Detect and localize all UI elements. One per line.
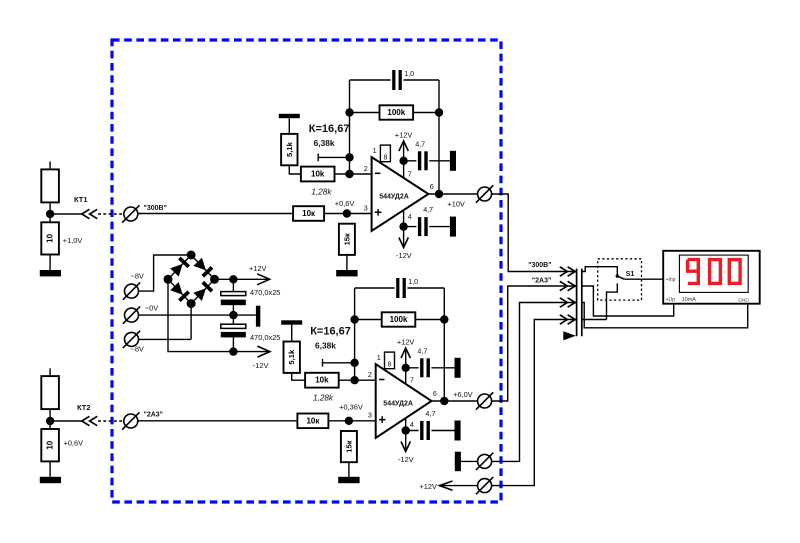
arrowhead -12V rail <box>257 346 270 357</box>
label ~0V <box>145 304 158 313</box>
connector row4 <box>476 477 493 494</box>
arrowhead +12V rail <box>257 274 270 285</box>
wire 100k (U1 top channel) <box>350 112 440 114</box>
svg-text:100k: 100k <box>387 108 405 117</box>
pin 2 label (U1 top channel) <box>364 164 368 173</box>
node pin2 (U2 bottom channel) <box>350 376 358 384</box>
svg-text:КТ1: КТ1 <box>74 195 88 204</box>
svg-text:544УД2А: 544УД2А <box>383 401 413 408</box>
connector bus lines <box>577 269 582 337</box>
svg-text:К=16,67: К=16,67 <box>309 123 350 135</box>
node filter + rail <box>229 275 237 283</box>
ground (KT1) <box>40 270 61 276</box>
arrowhead -12V (U1 top channel) <box>399 238 408 248</box>
svg-text:+0,6V: +0,6V <box>335 199 355 208</box>
svg-text:~0V: ~0V <box>145 304 158 313</box>
wire output (U2 bottom channel) <box>432 400 478 402</box>
svg-text:470,0x25: 470,0x25 <box>250 333 280 342</box>
connector "300В" input <box>122 205 139 222</box>
wire ~8V to bridge bottom <box>139 338 192 340</box>
svg-text:+12V: +12V <box>397 337 415 346</box>
connector output (U2 bottom channel) <box>476 392 493 409</box>
svg-text:8: 8 <box>388 361 392 368</box>
terminal bar above 5,1k (U1 top channel) <box>279 114 300 118</box>
svg-text:+1,0V: +1,0V <box>63 236 83 245</box>
op-amp 544УД2А (U1 top channel) <box>372 157 429 231</box>
label +1,0V <box>63 236 83 245</box>
label +12V feed <box>419 482 437 491</box>
label pin3 voltage (U2 bottom channel) <box>339 402 363 411</box>
wire 10k to pin2 (U1 top channel) <box>335 173 372 175</box>
arrow into bus row4 <box>560 315 575 324</box>
stub 6,38k (U2 bottom channel) <box>323 359 355 367</box>
svg-text:"2А3": "2А3" <box>144 412 163 419</box>
arrow into bus row3 <box>560 298 575 307</box>
wire feedback left vertical (U1 top channel) <box>349 80 351 174</box>
svg-text:+12V: +12V <box>419 482 437 491</box>
node feedback left (U2 bottom channel) <box>350 315 358 323</box>
label 4,7 top (U2 bottom channel) <box>417 347 427 356</box>
resistor 15к (U1 top channel) <box>339 224 355 255</box>
wire KT2 to arrow <box>50 420 82 422</box>
wire +12V rail <box>215 278 269 280</box>
resistor 100k (U2 bottom channel) <box>382 312 416 326</box>
wire pin7 (U1 top channel) <box>403 142 405 178</box>
terminal bar row3 <box>455 452 461 472</box>
connector row3 <box>476 453 493 470</box>
wire input to pin3 (U2 bottom channel) <box>138 420 376 422</box>
wire bridge left to -12V rail <box>168 279 233 351</box>
svg-text:К=16,67: К=16,67 <box>310 326 351 338</box>
wire 15к to ground (U2 bottom channel) <box>348 462 350 477</box>
pin 4 label (U2 bottom channel) <box>410 420 414 429</box>
node filter mid (0V) <box>229 311 237 319</box>
wire 2А3 signal to bus <box>492 286 577 401</box>
plus sign (U2 bottom channel) <box>379 416 386 423</box>
wire pin4 (U1 top channel) <box>403 210 405 246</box>
node feedback right (U1 top channel) <box>435 108 443 116</box>
minus sign (U1 top channel) <box>375 172 380 174</box>
diode VD2 (top-right) <box>193 258 212 277</box>
wire feedback right vertical (U2 bottom channel) <box>443 288 445 401</box>
capacitor 1,0 (U2 bottom channel) <box>396 278 406 298</box>
terminal bar 4,7 top (U1 top channel) <box>450 151 456 171</box>
label 2А3 at bus <box>532 278 551 285</box>
svg-text:6: 6 <box>433 389 437 398</box>
label +12V rail <box>249 264 267 273</box>
node KT2 <box>46 417 54 425</box>
digit 0 (right) <box>729 260 740 284</box>
resistor 5,1k (U1 top channel) <box>281 134 297 165</box>
resistor 10 (KT2 lower) <box>41 429 59 461</box>
svg-text:-12V: -12V <box>253 361 269 370</box>
svg-text:-12V: -12V <box>398 455 414 464</box>
resistor 10к input (U2 bottom channel) <box>297 414 328 429</box>
pin 7 label (U1 top channel) <box>408 169 412 178</box>
node feedback right (U2 bottom channel) <box>440 315 448 323</box>
svg-text:6: 6 <box>430 182 434 191</box>
pin 1 label (U2 bottom channel) <box>377 353 381 362</box>
label pin3 voltage (U1 top channel) <box>335 199 355 208</box>
resistor 10k (U1 top channel) <box>301 167 335 182</box>
node pin7 (U2 bottom channel) <box>402 364 410 372</box>
connector "2А3" input <box>122 412 139 429</box>
svg-text:10mA: 10mA <box>682 297 696 303</box>
svg-text:5,1k: 5,1k <box>287 349 296 365</box>
label KT2 <box>77 403 91 412</box>
svg-text:10k: 10k <box>311 170 325 179</box>
svg-text:+Up: +Up <box>666 297 676 303</box>
terminal bar 4,7 bottom (U2 bottom channel) <box>455 421 461 441</box>
resistor (KT2 upper, unlabeled) <box>41 368 59 409</box>
offset null box pin 8 (U2 bottom channel) <box>385 352 395 369</box>
resistor 10к input (U1 top channel) <box>293 206 324 221</box>
label +12V (U2 bottom channel) <box>397 337 415 346</box>
svg-text:4,7: 4,7 <box>415 140 425 149</box>
dashed wire into module <box>98 420 124 422</box>
wire pin4 (U2 bottom channel) <box>405 418 407 450</box>
svg-text:+0,36V: +0,36V <box>339 402 363 411</box>
svg-text:1: 1 <box>377 353 381 362</box>
label 10mA <box>682 297 696 303</box>
switch enclosure (dashed) <box>598 259 642 300</box>
svg-text:1,0: 1,0 <box>404 69 414 78</box>
svg-text:10: 10 <box>46 233 55 242</box>
digit 0 (middle) <box>710 260 721 284</box>
label K=16,67 (U2 bottom channel) <box>310 326 351 338</box>
node output (U1 top channel) <box>435 190 443 198</box>
wire feedback left vertical (U2 bottom channel) <box>354 288 356 380</box>
svg-text:1,0: 1,0 <box>408 277 418 286</box>
label -12V (U1 top channel) <box>396 251 412 260</box>
node output (U2 bottom channel) <box>440 397 448 405</box>
wire <box>49 255 51 271</box>
connector output (U1 top channel) <box>476 185 493 202</box>
label 2А3 input <box>144 412 163 419</box>
connector ~8V (bottom) <box>123 331 140 348</box>
label K=16,67 (U1 top channel) <box>309 123 350 135</box>
device boundary (blue dashed frame) <box>112 40 501 502</box>
connector ~8V (top) <box>123 282 140 299</box>
terminal bar 4,7 top (U2 bottom channel) <box>455 358 461 378</box>
wire bus row2 to display +Up <box>582 286 674 316</box>
wire +12V feed <box>440 485 478 487</box>
wire 10k to pin2 (U2 bottom channel) <box>339 379 376 381</box>
label +12V (U1 top channel) <box>395 130 413 139</box>
node bridge left <box>164 275 173 284</box>
wire row3 to bus <box>492 303 577 462</box>
wire -12V rail <box>233 351 268 353</box>
wire 5,1k to 10k (U2 bottom channel) <box>292 373 305 380</box>
svg-text:4: 4 <box>410 420 414 429</box>
arrow KT2 (double chevron left) <box>82 416 97 425</box>
resistor 10k (U2 bottom channel) <box>305 373 339 388</box>
arrowhead -12V (U2 bottom channel) <box>401 442 410 452</box>
common terminal bar (0V) <box>256 306 260 327</box>
wire feedback top (U2 bottom channel) <box>355 287 445 289</box>
arrowhead +12V feed (left) <box>440 481 453 490</box>
label 6,38k (U2 bottom channel) <box>315 341 336 351</box>
svg-text:4,7: 4,7 <box>423 205 433 214</box>
wire bridge bottom to ~8V <box>190 304 192 340</box>
switch throw2 contact <box>607 283 618 319</box>
wire bar to 5,1k (U1 top channel) <box>288 118 290 134</box>
svg-text:7: 7 <box>410 375 414 384</box>
label 4,7 top (U1 top channel) <box>415 140 425 149</box>
svg-text:+Inp: +Inp <box>666 277 676 283</box>
label 1,0 (U2 bottom channel) <box>408 277 418 286</box>
capacitor 470,0x25 (upper) <box>221 292 246 306</box>
wire feedback right vertical (U1 top channel) <box>438 80 440 194</box>
label ~8V top <box>131 272 144 281</box>
svg-text:"2А3": "2А3" <box>532 278 551 285</box>
svg-text:КТ2: КТ2 <box>77 403 91 412</box>
wire cap 4,7 bottom (U1 top channel) <box>404 226 450 228</box>
dashed wire into module <box>98 213 124 215</box>
wire 5,1k to 10k (U1 top channel) <box>289 165 301 174</box>
wire <box>49 461 51 476</box>
arrow into bus row1 <box>560 267 575 276</box>
wire bus row3 to display GND <box>582 303 748 328</box>
wire cap 4,7 top (U2 bottom channel) <box>406 367 455 369</box>
wire KT1 to arrow <box>50 213 82 215</box>
terminal bar 4,7 bottom (U1 top channel) <box>450 217 456 237</box>
capacitor 470,0x25 (lower) <box>221 324 246 337</box>
label 4,7 bottom (U1 top channel) <box>423 205 433 214</box>
wire 15к to ground (U1 top channel) <box>346 255 348 270</box>
wire cap 4,7 top (U1 top channel) <box>404 160 450 162</box>
svg-text:470,0x25: 470,0x25 <box>250 288 280 297</box>
node 6,38k (U1 top channel) <box>345 153 353 161</box>
wire input to pin3 (U1 top channel) <box>138 213 372 215</box>
svg-text:4: 4 <box>408 212 412 221</box>
svg-text:4,7: 4,7 <box>417 347 427 356</box>
svg-text:2: 2 <box>364 164 368 173</box>
diode VD3 (left-bottom) <box>170 282 189 301</box>
diode VD4 (bottom-right) <box>193 282 212 301</box>
svg-text:+12V: +12V <box>249 264 267 273</box>
capacitor 4,7 top (U2 bottom channel) <box>420 358 430 377</box>
resistor (KT1 upper, unlabeled) <box>41 162 59 203</box>
label 4,7 bottom (U2 bottom channel) <box>425 409 435 418</box>
label output voltage (U1 top channel) <box>447 199 465 208</box>
node bridge right <box>210 275 219 284</box>
wire bus row1 to switch throw1 <box>582 267 618 276</box>
svg-text:"300В": "300В" <box>144 205 167 212</box>
svg-text:1,28k: 1,28k <box>311 187 332 196</box>
wire cap stack <box>232 279 234 351</box>
svg-text:6,38k: 6,38k <box>315 341 336 351</box>
pin 6 label (U1 top channel) <box>430 182 434 191</box>
pin 3 label (U2 bottom channel) <box>368 411 372 420</box>
svg-text:10к: 10к <box>306 416 320 425</box>
wire <box>49 202 51 222</box>
capacitor 4,7 bottom (U2 bottom channel) <box>420 421 430 440</box>
node pin3 (U1 top channel) <box>343 209 351 217</box>
panel meter window <box>679 255 748 292</box>
svg-text:544УД2А: 544УД2А <box>379 194 409 201</box>
label -12V rail <box>253 361 269 370</box>
label S1 <box>626 269 635 278</box>
pin 7 label (U2 bottom channel) <box>410 375 414 384</box>
svg-text:"300В": "300В" <box>528 262 551 269</box>
op-amp 544УД2А (U2 bottom channel) <box>376 364 432 438</box>
svg-text:1: 1 <box>373 146 377 155</box>
node pin2 (U1 top channel) <box>345 170 353 178</box>
label +Up <box>666 297 676 303</box>
pin 2 label (U2 bottom channel) <box>368 370 372 379</box>
svg-text:GND: GND <box>738 297 749 303</box>
wire ~8V to bridge top <box>139 255 192 291</box>
plus sign (U1 top channel) <box>375 209 382 216</box>
node 6,38k (U2 bottom channel) <box>350 359 358 367</box>
label ~8V bottom <box>131 345 144 354</box>
svg-text:8: 8 <box>383 154 387 161</box>
panel meter body <box>663 251 760 304</box>
connector ~0V <box>123 306 140 323</box>
wire <box>49 409 51 429</box>
svg-text:4,7: 4,7 <box>425 409 435 418</box>
node bridge bottom <box>187 299 196 308</box>
resistor 15к (U2 bottom channel) <box>341 431 357 462</box>
capacitor 4,7 bottom (U1 top channel) <box>418 217 428 236</box>
svg-text:+0,6V: +0,6V <box>64 439 84 448</box>
wire switch common to display <box>624 278 663 280</box>
label 470,0x25 lower <box>250 333 280 342</box>
resistor 5,1k (U2 bottom channel) <box>284 342 300 373</box>
diode VD1 (left-top) <box>170 258 189 277</box>
label 544УД2А (U1 top channel) <box>379 194 409 201</box>
label 1,28k (U1 top channel) <box>311 187 332 196</box>
arrow into bus row2 <box>560 281 575 290</box>
wire 100k (U2 bottom channel) <box>355 319 445 321</box>
wire bar to 5,1k (U2 bottom channel) <box>291 325 293 342</box>
label -12V (U2 bottom channel) <box>398 455 414 464</box>
svg-text:3: 3 <box>364 203 368 212</box>
svg-text:15к: 15к <box>344 440 353 452</box>
node pin3 (U2 bottom channel) <box>345 417 353 425</box>
minus sign (U2 bottom channel) <box>379 379 384 381</box>
node bridge top <box>187 251 196 260</box>
wire 300В signal to bus <box>492 194 577 272</box>
svg-text:S1: S1 <box>626 269 635 278</box>
digit 9 <box>688 260 699 284</box>
svg-text:+10V: +10V <box>447 199 465 208</box>
node pin4 (U1 top channel) <box>399 222 407 230</box>
svg-text:10k: 10k <box>315 376 329 385</box>
node pin7 (U1 top channel) <box>399 157 407 165</box>
wire output (U1 top channel) <box>428 193 477 195</box>
label 1,28k (U2 bottom channel) <box>313 394 334 403</box>
pin 3 label (U1 top channel) <box>364 203 368 212</box>
arrowhead +12V (U2 bottom channel) <box>401 348 410 358</box>
label GND <box>738 297 749 303</box>
svg-text:~8V: ~8V <box>131 272 144 281</box>
svg-text:2: 2 <box>368 370 372 379</box>
ground (U2 bottom channel) <box>338 477 359 483</box>
label 6,38k (U1 top channel) <box>314 138 335 148</box>
node KT1 <box>46 210 54 218</box>
svg-text:-12V: -12V <box>396 251 412 260</box>
label +Inp <box>666 277 676 283</box>
svg-text:10к: 10к <box>302 209 316 218</box>
svg-text:10: 10 <box>46 440 55 449</box>
capacitor 1,0 (U1 top channel) <box>392 70 402 90</box>
wire ~0V to common <box>139 314 256 316</box>
label +0,6V <box>64 439 84 448</box>
label KT1 <box>74 195 88 204</box>
wire pin7 (U2 bottom channel) <box>405 349 407 384</box>
svg-text:100k: 100k <box>390 315 408 324</box>
wire bus row4 to switch throw2 <box>582 319 607 321</box>
terminal bar above 5,1k (U2 bottom channel) <box>281 320 302 324</box>
label 544УД2А (U2 bottom channel) <box>383 401 413 408</box>
svg-text:+6,0V: +6,0V <box>453 390 473 399</box>
svg-text:~8V: ~8V <box>131 345 144 354</box>
capacitor 4,7 top (U1 top channel) <box>418 151 428 170</box>
stub 6,38k (U1 top channel) <box>318 154 349 162</box>
ground (U1 top channel) <box>336 270 357 276</box>
arrowhead +12V (U1 top channel) <box>399 141 408 151</box>
node feedback left (U1 top channel) <box>345 108 353 116</box>
wire row4 to bus <box>492 320 577 486</box>
resistor 100k (U1 top channel) <box>380 105 414 119</box>
label 300В at bus <box>528 262 551 269</box>
arrow KT1 (double chevron left) <box>82 209 97 218</box>
ground marker triangle <box>563 331 576 340</box>
label 300В input <box>144 205 167 212</box>
svg-text:6,38k: 6,38k <box>314 138 335 148</box>
wire bar to connector row3 <box>461 460 478 462</box>
switch blade S1 <box>616 274 625 279</box>
svg-text:15к: 15к <box>342 233 351 245</box>
label 1,0 (U1 top channel) <box>404 69 414 78</box>
svg-text:1,28k: 1,28k <box>313 394 334 403</box>
svg-text:3: 3 <box>368 411 372 420</box>
pin 1 label (U1 top channel) <box>373 146 377 155</box>
resistor 10 (KT1 lower) <box>41 222 59 254</box>
node pin4 (U2 bottom channel) <box>402 426 410 434</box>
wire feedback top (U1 top channel) <box>350 79 440 81</box>
wire cap 4,7 bottom (U2 bottom channel) <box>406 430 455 432</box>
pin 6 label (U2 bottom channel) <box>433 389 437 398</box>
label output voltage (U2 bottom channel) <box>453 390 473 399</box>
svg-text:7: 7 <box>408 169 412 178</box>
offset null box pin 8 (U1 top channel) <box>380 145 390 162</box>
svg-text:5,1k: 5,1k <box>285 141 294 157</box>
svg-text:+12V: +12V <box>395 130 413 139</box>
label 470,0x25 upper <box>250 288 280 297</box>
bridge rectifier frame <box>168 255 215 304</box>
ground (KT2) <box>40 477 61 483</box>
node -12V rail <box>229 347 237 355</box>
pin 4 label (U1 top channel) <box>408 212 412 221</box>
